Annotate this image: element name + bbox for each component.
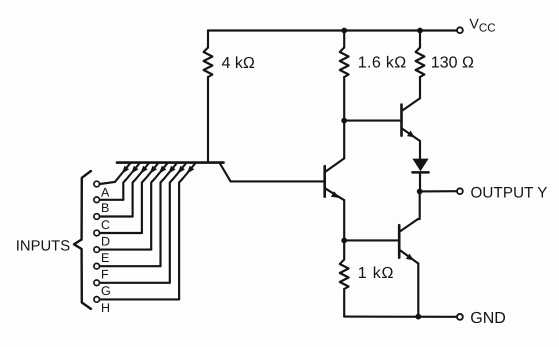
- label 1.6 kOhm value: [358, 55, 407, 72]
- wire Q3 emitter to diode: [419, 141, 421, 159]
- terminal input E: [94, 247, 100, 253]
- resistor R2 1.6 kOhm: [340, 31, 349, 121]
- label input H: [101, 301, 110, 315]
- svg-text:V: V: [469, 17, 479, 33]
- wire Q1 collector to Q2 base: [231, 180, 325, 182]
- transistor Q1 emitter C: [133, 164, 149, 217]
- label input B: [101, 201, 109, 215]
- svg-text:F: F: [101, 268, 109, 282]
- svg-text:C: C: [101, 218, 110, 232]
- label input A: [101, 185, 110, 199]
- wire bottom rail: [344, 316, 457, 318]
- terminal input F: [94, 263, 100, 269]
- transistor Q1 emitter A: [115, 164, 130, 182]
- transistor Q1 emitter F: [161, 164, 177, 267]
- resistor R3 130 Ohm: [416, 31, 425, 99]
- node junction Q4 emitter / rail: [415, 314, 421, 320]
- svg-text:INPUTS: INPUTS: [16, 238, 70, 254]
- node junction Q2 collector / R2 / Q3 base: [341, 118, 347, 124]
- transistor Q3 upper output: [402, 98, 421, 141]
- svg-text:E: E: [101, 251, 109, 265]
- wire input H: [100, 298, 179, 300]
- terminal input D: [94, 230, 100, 236]
- wire input C: [100, 215, 133, 217]
- transistor Q1 emitter B: [123, 164, 139, 200]
- svg-text:4 kΩ: 4 kΩ: [222, 55, 255, 72]
- brace inputs: [74, 171, 91, 309]
- wire top Vcc rail: [208, 29, 457, 31]
- label input G: [101, 284, 111, 298]
- wire input B: [100, 199, 124, 201]
- transistor Q1 emitter D: [142, 164, 158, 234]
- label GND: [470, 310, 506, 327]
- transistor Q1 emitter E: [151, 164, 167, 250]
- wire Q4 emitter down: [417, 264, 419, 317]
- svg-text:G: G: [101, 284, 111, 298]
- label 1 kOhm value: [358, 265, 395, 282]
- terminal input B: [94, 197, 100, 203]
- resistor R4 1 kOhm: [340, 240, 349, 316]
- wire input G: [100, 282, 170, 284]
- label input C: [101, 218, 110, 232]
- terminal GND: [457, 314, 463, 320]
- wire Q2 emitter down: [343, 200, 345, 240]
- svg-text:D: D: [101, 234, 110, 248]
- transistor Q1 emitter G: [170, 164, 186, 283]
- wire Q4 collector up to output node: [418, 191, 420, 219]
- wire output: [420, 190, 457, 192]
- label input F: [101, 268, 109, 282]
- resistor R1 4 kOhm: [204, 31, 213, 162]
- label 4 kOhm value: [222, 55, 255, 72]
- transistor Q2 phase splitter: [325, 158, 345, 200]
- wire input F: [100, 265, 161, 267]
- label input E: [101, 251, 109, 265]
- terminal input A: [94, 181, 100, 187]
- label Vcc: [469, 17, 495, 35]
- svg-text:1.6 kΩ: 1.6 kΩ: [358, 55, 407, 72]
- node junction dot rail/1.6k: [341, 28, 347, 34]
- svg-text:OUTPUT Y: OUTPUT Y: [471, 184, 548, 201]
- wire Q4 base: [344, 239, 399, 241]
- terminal input C: [94, 214, 100, 220]
- label 130 Ohm value: [431, 55, 474, 72]
- transistor Q1 emitter H: [179, 164, 195, 300]
- label input D: [101, 234, 110, 248]
- terminal OUTPUT Y: [457, 188, 463, 194]
- node junction dot rail/130: [417, 28, 423, 34]
- svg-text:A: A: [101, 185, 110, 199]
- diode D1: [412, 159, 428, 192]
- wire input D: [100, 232, 142, 234]
- terminal input G: [94, 280, 100, 286]
- terminal input H: [94, 297, 100, 303]
- node junction output: [417, 189, 423, 195]
- wire input E: [100, 249, 151, 251]
- wire Q2 collector up: [343, 121, 345, 159]
- label OUTPUT Y: [471, 184, 548, 201]
- terminal Vcc: [457, 27, 463, 33]
- wire Q3 base: [344, 120, 401, 122]
- node junction Q2 emitter / R4 / Q4 base: [341, 238, 347, 244]
- svg-text:B: B: [101, 201, 109, 215]
- svg-text:130 Ω: 130 Ω: [431, 55, 474, 72]
- svg-text:GND: GND: [470, 310, 506, 327]
- svg-text:1 kΩ: 1 kΩ: [358, 265, 395, 282]
- svg-text:H: H: [101, 301, 110, 315]
- svg-text:CC: CC: [479, 22, 496, 35]
- wire input A to emitter: [100, 182, 115, 184]
- transistor Q1 multi-emitter input: [117, 163, 231, 182]
- label INPUTS: [16, 238, 70, 254]
- transistor Q4 lower output: [399, 219, 418, 263]
